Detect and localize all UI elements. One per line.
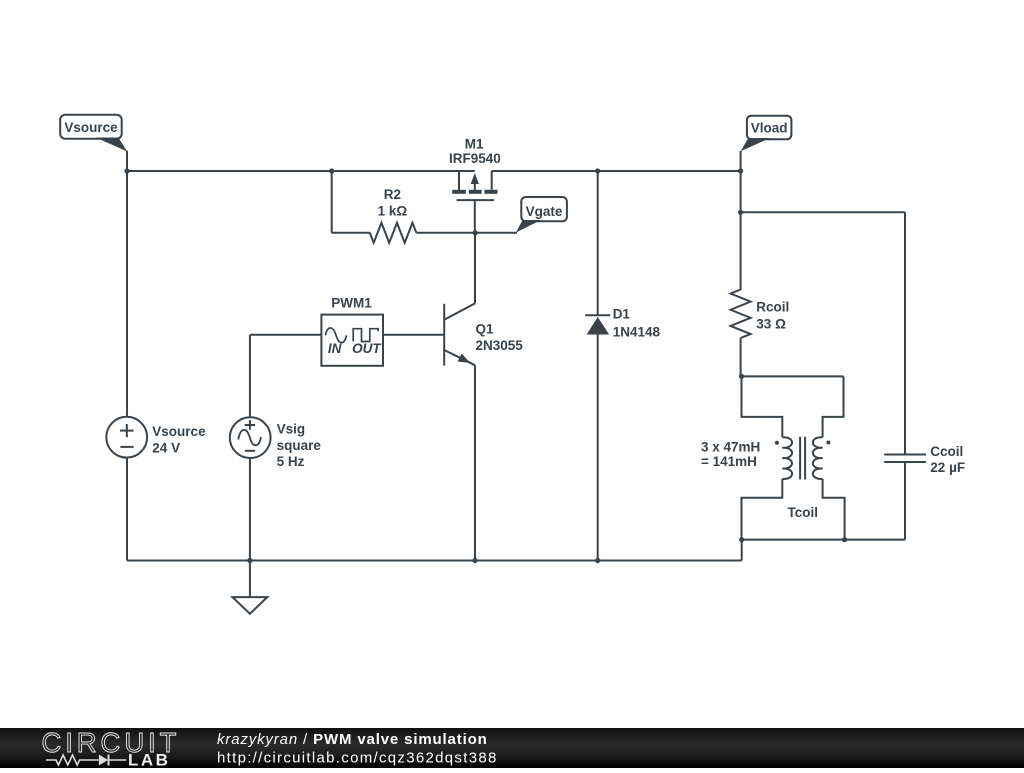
wire transformer left upper leads (742, 376, 783, 437)
footer bar (0, 728, 1024, 768)
svg-text:3 x 47mH: 3 x 47mH (701, 439, 760, 454)
node junction dot emitter-bottom (472, 558, 477, 563)
transistor Q1 NPN (444, 303, 523, 365)
svg-text:OUT: OUT (352, 341, 382, 356)
component PWM1 block (321, 296, 383, 366)
svg-text:Vload: Vload (751, 120, 788, 135)
node junction dot Ccoil branch (738, 210, 743, 215)
transformer Tcoil (701, 437, 830, 520)
wire Rcoil bottom (740, 338, 742, 376)
svg-text:24 V: 24 V (152, 440, 180, 455)
node Vsource label flag (60, 115, 127, 152)
node junction dot ground (247, 558, 252, 563)
wire PWM1 input (250, 334, 322, 336)
ground symbol (233, 561, 268, 614)
svg-text:http://circuitlab.com/cqz362dq: http://circuitlab.com/cqz362dqst388 (217, 750, 498, 767)
node junction dot transformer bottom-right (842, 537, 847, 542)
wire Q1 collector vertical (474, 233, 476, 304)
svg-text:R2: R2 (384, 187, 401, 202)
node junction dot D1-bottom (595, 558, 600, 563)
wire transformer right upper leads (823, 376, 844, 437)
svg-text:PWM1: PWM1 (331, 296, 372, 311)
wire Vsig top vertical (249, 335, 251, 417)
svg-text:5 Hz: 5 Hz (277, 454, 305, 469)
wire Vsource bottom (126, 458, 128, 561)
node Vgate label flag (516, 197, 567, 233)
wire bottom rail step up (741, 540, 743, 561)
svg-text:2N3055: 2N3055 (476, 338, 524, 353)
wire Vload flag stem (740, 151, 742, 171)
svg-text:Vsig: Vsig (277, 422, 306, 437)
svg-text:M1: M1 (465, 136, 484, 151)
wire gate lead down to Q1 collector (474, 201, 476, 233)
svg-text:Rcoil: Rcoil (756, 300, 789, 315)
wire transformer right lower leads (823, 479, 845, 540)
diode D1 (585, 171, 660, 561)
wire transformer top horizontal (742, 375, 844, 377)
node junction dot transformer top (739, 374, 744, 379)
wire Q1 emitter down (474, 365, 476, 560)
wire transformer left lower leads (742, 479, 783, 540)
svg-text:D1: D1 (613, 307, 631, 322)
voltage source Vsource (106, 417, 206, 458)
node junction dot gate (473, 230, 478, 235)
svg-text:krazykyran / PWM valve simulat: krazykyran / PWM valve simulation (217, 731, 488, 748)
wire Vgate stub (475, 232, 517, 234)
node Vload label flag (741, 116, 792, 152)
CircuitLab logo circuit glyph (46, 755, 99, 765)
wire Vsig bottom (249, 458, 251, 561)
svg-text:square: square (277, 438, 322, 453)
wire Vsource flag stem (126, 151, 128, 171)
svg-text:Ccoil: Ccoil (930, 444, 963, 459)
resistor Rcoil (731, 290, 790, 339)
capacitor Ccoil (884, 444, 965, 540)
node junction dot D1-top (595, 168, 600, 173)
wire top rail right segment (492, 170, 741, 172)
wire transformer bottom rail (742, 539, 905, 541)
node junction dot Vload-top (738, 168, 743, 173)
resistor R2 (332, 187, 476, 243)
node junction dot R2 branch (329, 168, 334, 173)
svg-text:Vgate: Vgate (526, 204, 563, 219)
svg-text:Tcoil: Tcoil (788, 505, 819, 520)
wire Ccoil branch horizontal (741, 211, 905, 213)
wire PWM1 output to Q1 base (383, 334, 444, 336)
svg-text:22 µF: 22 µF (930, 460, 965, 475)
node junction dot top-left (124, 168, 129, 173)
svg-text:33 Ω: 33 Ω (756, 317, 786, 332)
wire Ccoil vertical top (904, 212, 906, 453)
svg-text:IRF9540: IRF9540 (449, 151, 501, 166)
wire top rail left segment (127, 170, 475, 172)
svg-text:IN: IN (328, 341, 342, 356)
voltage source Vsig (230, 417, 322, 469)
svg-text:1 kΩ: 1 kΩ (378, 204, 408, 219)
svg-text:Vsource: Vsource (152, 424, 206, 439)
transistor M1 PMOS (449, 136, 501, 200)
svg-text:1N4148: 1N4148 (613, 325, 661, 340)
svg-text:LAB: LAB (128, 751, 170, 769)
svg-text:Q1: Q1 (476, 322, 495, 337)
svg-text:Vsource: Vsource (64, 120, 118, 135)
node junction dot transformer bottom-left (739, 537, 744, 542)
wire left rail down to source (126, 171, 128, 417)
wire R2 branch vertical (331, 171, 333, 233)
svg-text:= 141mH: = 141mH (701, 454, 757, 469)
wire right rail to Rcoil (740, 171, 742, 290)
wire bottom rail (127, 560, 742, 562)
